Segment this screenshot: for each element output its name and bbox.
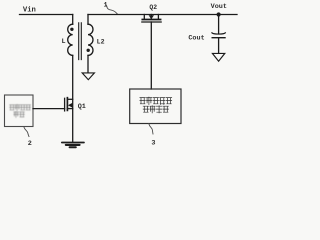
svg-text:Vin: Vin <box>23 6 36 14</box>
wire: Vin rail to L top <box>20 14 73 16</box>
polarity dot of L <box>70 28 73 31</box>
wire: Q2 gate to box 3 <box>150 22 152 89</box>
capacitor Cout <box>212 33 225 53</box>
wire: rail from L2 top through Q2 to right edge <box>88 14 237 16</box>
node 2 leader <box>24 127 29 137</box>
transformer core <box>79 23 82 60</box>
ground (earth bars) below Q1 <box>62 143 84 148</box>
wire: L bottom to Q1 drain <box>72 55 74 142</box>
ground (hollow triangle) below L2 <box>82 73 94 80</box>
inductor L (primary winding) <box>68 15 73 56</box>
svg-text:3: 3 <box>151 140 155 148</box>
svg-text:Cout: Cout <box>188 35 204 43</box>
svg-text:Q1: Q1 <box>78 103 86 111</box>
svg-text:Vout: Vout <box>211 3 227 11</box>
inductor L2 (secondary winding) <box>88 15 93 73</box>
svg-text:L2: L2 <box>97 39 105 46</box>
svg-text:Q2: Q2 <box>149 4 157 11</box>
svg-text:2: 2 <box>28 140 32 148</box>
box 2 text line2 (电路 pseudo-glyphs) <box>14 112 25 118</box>
node 3 leader <box>149 124 153 134</box>
ground (hollow triangle) below Cout <box>212 53 224 61</box>
box 2 text line1 (驱动控制 pseudo-glyphs) <box>10 104 31 110</box>
node Vout junction <box>217 12 221 16</box>
wire: Vout node down to Cout <box>218 15 220 34</box>
wire: box 2 to Q1 gate <box>33 108 65 110</box>
svg-text:1: 1 <box>104 1 108 9</box>
transistor Q1 (N-MOSFET) <box>65 98 73 111</box>
control box 3 <box>130 89 181 124</box>
transistor Q2 (series MOSFET on rail) <box>142 15 161 23</box>
svg-text:L: L <box>62 38 66 46</box>
box 3 text line2 (控制电路 pseudo-glyphs) <box>143 106 168 113</box>
control box 2 <box>5 95 34 127</box>
box 3 text line1 (零电压开通 pseudo-glyphs) <box>140 97 172 104</box>
polarity dot of L2 <box>87 49 90 52</box>
node 1 leader <box>106 5 117 14</box>
